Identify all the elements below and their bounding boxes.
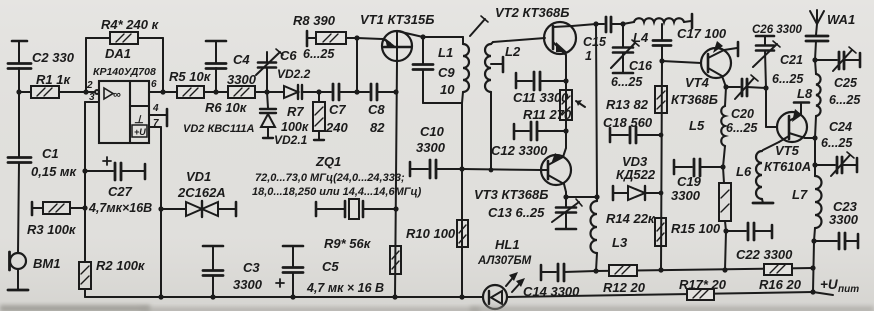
trimmer capacitor C6 [256, 47, 335, 92]
inductor L3 [591, 197, 628, 271]
node: C23 junction [811, 238, 816, 243]
node: VT5 collector [812, 135, 817, 140]
zener VD1 2С162А [158, 169, 236, 217]
transistor VT4 КТ368Б [671, 41, 738, 107]
wire: base column [357, 38, 383, 92]
inductor L8 [797, 60, 821, 138]
wire: op-amp pin3 line down [84, 102, 86, 262]
node: op-amp output [160, 89, 165, 94]
node: collector branch [593, 21, 598, 26]
svg-text:C5: C5 [322, 259, 339, 274]
svg-text:L8: L8 [797, 86, 813, 101]
svg-text:КТ368Б: КТ368Б [671, 92, 718, 107]
svg-text:VT3 КТ368Б: VT3 КТ368Б [474, 187, 548, 202]
node: rail C3 [210, 294, 215, 299]
svg-text:2С162А: 2С162А [177, 185, 226, 200]
resistor R7 [313, 92, 325, 140]
resistor R17 [679, 277, 727, 300]
node: R7 junction [316, 89, 321, 94]
svg-text:R10 100: R10 100 [406, 226, 456, 241]
svg-text:АЛ307БМ: АЛ307БМ [477, 255, 532, 267]
inductor L5 [689, 87, 726, 167]
pin 2 of DA1 [86, 80, 99, 94]
svg-text:6...25: 6...25 [829, 93, 861, 107]
pin 6 of DA1 [149, 79, 163, 92]
node: C20-C21 junction [763, 85, 768, 90]
resistor R6 [183, 86, 267, 135]
svg-text:72,0...73,0 МГц(24,0...24,333;: 72,0...73,0 МГц(24,0...24,333; [255, 172, 405, 184]
inductor L6 [736, 151, 762, 199]
node: rail VD1 line [158, 294, 163, 299]
svg-text:VT2 КТ368Б: VT2 КТ368Б [495, 5, 569, 20]
trimmer capacitor C20 [726, 75, 766, 135]
node: rail C5 [290, 294, 295, 299]
node: C16 branch [620, 21, 625, 26]
svg-text:82: 82 [370, 120, 385, 135]
wire: R11 to VT3 collector [565, 131, 567, 148]
resistor R5 [163, 69, 216, 98]
svg-text:+U: +U [134, 127, 146, 137]
capacitor C7 [319, 84, 357, 135]
transistor VT3 КТ368Б [474, 148, 571, 202]
op-amp U1 DA1 КР140УД708 [93, 46, 156, 143]
diode VD3 КД522 [613, 154, 663, 200]
transistor VT1 КТ315Б [360, 12, 434, 62]
svg-text:R8 390: R8 390 [293, 13, 336, 28]
svg-text:R9* 56к: R9* 56к [324, 236, 372, 251]
resistor R2 [79, 258, 146, 297]
svg-text:6...25: 6...25 [726, 121, 758, 135]
trimmer capacitor C13 [488, 194, 600, 229]
node: C24 junction [812, 162, 817, 167]
capacitor C27 [85, 157, 152, 215]
wire: VT3 base line [462, 169, 541, 170]
ground under L6 [753, 199, 773, 203]
svg-text:VT5: VT5 [775, 143, 800, 158]
svg-text:С19: С19 [677, 174, 702, 189]
svg-text:2: 2 [86, 80, 93, 91]
svg-text:R17* 20: R17* 20 [679, 277, 727, 292]
svg-text:L6: L6 [736, 164, 752, 179]
wire: rail A [596, 268, 813, 271]
svg-text:6...25: 6...25 [821, 136, 853, 150]
pin 4 of DA1 [149, 103, 167, 126]
node: R3 to input line [82, 205, 87, 210]
node: rail A - R15 [722, 267, 727, 272]
svg-text:6...25: 6...25 [611, 75, 643, 89]
svg-text:R13 82: R13 82 [606, 97, 649, 112]
svg-text:R5 10к: R5 10к [169, 69, 212, 84]
node: R8-base junction [354, 35, 359, 40]
svg-text:3300: 3300 [233, 277, 263, 292]
svg-text:КТ610А: КТ610А [764, 159, 811, 174]
svg-text:С22 3300: С22 3300 [736, 247, 793, 262]
svg-text:С21: С21 [780, 53, 803, 67]
node: rail A - R14 [658, 267, 663, 272]
ground under BM1 [8, 289, 28, 292]
tuning slug between L1 L2 [470, 16, 488, 36]
wire: pin7 line down to rail [160, 127, 162, 297]
capacitor C19 [671, 159, 723, 203]
resistor R3 [27, 202, 85, 237]
terminal +U supply [813, 277, 859, 295]
svg-text:пит: пит [838, 284, 859, 295]
svg-text:3300: 3300 [829, 212, 859, 227]
svg-text:VD2.1: VD2.1 [274, 133, 308, 147]
resistor R14 [606, 211, 666, 246]
svg-text:4: 4 [152, 103, 159, 114]
svg-text:С27: С27 [108, 184, 133, 199]
resistor R9 [324, 236, 401, 274]
svg-text:R12 20: R12 20 [603, 280, 646, 295]
svg-text:C1: C1 [42, 146, 59, 161]
svg-text:КД522: КД522 [616, 167, 656, 182]
capacitor C8 [357, 84, 396, 135]
svg-text:VD1: VD1 [186, 169, 211, 184]
svg-text:C16: C16 [629, 59, 653, 73]
resistor R16 [759, 264, 802, 292]
node: C7-C8 junction [354, 89, 359, 94]
svg-text:WA1: WA1 [827, 12, 855, 27]
svg-text:L5: L5 [689, 118, 705, 133]
svg-text:VD2 КВС111А: VD2 КВС111А [183, 123, 255, 135]
resistor R8 [293, 13, 357, 46]
svg-text:100к: 100к [281, 120, 309, 134]
svg-text:L1: L1 [438, 45, 453, 60]
svg-text:C7: C7 [329, 102, 346, 117]
wire: rail B right [507, 292, 813, 297]
node: rail B supply [810, 289, 815, 294]
resistor R12 [603, 265, 646, 295]
svg-text:3300: 3300 [671, 188, 701, 203]
svg-text:С15: С15 [583, 35, 607, 49]
pin 7 of DA1 [149, 118, 161, 129]
node: C19 junction [720, 164, 725, 169]
svg-text:+U: +U [820, 277, 839, 292]
svg-text:L3: L3 [612, 235, 628, 250]
svg-text:7: 7 [153, 118, 159, 129]
wire: R13 column [661, 61, 662, 270]
resistor R1 [19, 72, 86, 98]
svg-text:ВМ1: ВМ1 [33, 256, 60, 271]
pin 3 of DA1 [85, 92, 99, 103]
svg-text:1: 1 [585, 49, 592, 63]
node: varactor junction [264, 89, 269, 94]
node: emitter-crystal [393, 206, 398, 211]
svg-text:C18 560: C18 560 [603, 115, 653, 130]
svg-text:6: 6 [151, 79, 157, 90]
svg-text:С24: С24 [829, 120, 852, 134]
svg-text:∞: ∞ [113, 89, 121, 101]
svg-text:VT4: VT4 [685, 75, 710, 90]
svg-text:С25: С25 [834, 76, 858, 90]
LED HL1 АЛ307БМ [477, 237, 532, 309]
resistor R13 [606, 86, 667, 113]
svg-text:HL1: HL1 [495, 237, 520, 252]
svg-text:L7: L7 [792, 187, 808, 202]
svg-text:R3 100к: R3 100к [27, 222, 77, 237]
svg-text:R4* 240 к: R4* 240 к [101, 17, 160, 32]
inductor L7 [792, 165, 822, 241]
capacitor C9 [413, 37, 462, 103]
node: emitter-C8 [393, 89, 398, 94]
svg-text:R1 1к: R1 1к [36, 72, 71, 87]
capacitor C1 [8, 92, 78, 253]
wire: tank bottom line down [461, 103, 463, 297]
svg-text:C8: C8 [368, 102, 385, 117]
svg-text:С17 100: С17 100 [677, 26, 727, 41]
capacitor C11 [513, 72, 569, 105]
node: antenna C25 [812, 57, 817, 62]
svg-text:VT1 КТ315Б: VT1 КТ315Б [360, 12, 434, 27]
svg-text:6...25: 6...25 [772, 72, 804, 86]
svg-text:3300: 3300 [416, 140, 446, 155]
inductor L4 [623, 14, 692, 45]
svg-text:4,7мк×16В: 4,7мк×16В [88, 201, 152, 215]
resistor R4 feedback [86, 17, 163, 92]
svg-text:C4: C4 [233, 52, 250, 67]
wire: collector to tank [423, 36, 463, 38]
wire: bottom rail left [85, 296, 483, 298]
varactor VD2.2 [267, 85, 319, 99]
resistor R11 [523, 90, 585, 122]
transistor VT2 КТ368Б [495, 5, 576, 55]
svg-text:С26 3300: С26 3300 [752, 24, 802, 36]
svg-text:DA1: DA1 [105, 46, 131, 61]
svg-text:10: 10 [440, 82, 455, 97]
svg-text:C9: C9 [438, 65, 455, 80]
svg-text:4,7 мк × 16 В: 4,7 мк × 16 В [306, 281, 384, 295]
wire: VT1 emitter line down [395, 62, 397, 297]
svg-text:R14 22к: R14 22к [606, 211, 656, 226]
node: rail A - L3 [593, 268, 598, 273]
capacitor C23 [814, 199, 859, 249]
node: VT1 collector [420, 34, 425, 39]
svg-text:С6: С6 [280, 48, 297, 63]
capacitor C2 [8, 41, 75, 92]
svg-text:R16 20: R16 20 [759, 277, 802, 292]
node: C22 junction [723, 228, 728, 233]
wire: base wire VT4 [662, 61, 701, 63]
svg-text:С20: С20 [731, 107, 754, 121]
node: C4 junction [213, 89, 218, 94]
resistor R10 [406, 220, 468, 247]
node: C27 junction [82, 168, 87, 173]
resistor R15 [671, 167, 731, 236]
svg-text:С12 3300: С12 3300 [491, 143, 548, 158]
trimmer capacitor C24 [815, 120, 857, 176]
capacitor C15 [583, 17, 623, 63]
svg-text:R15 100: R15 100 [671, 221, 721, 236]
capacitor C14 [523, 264, 596, 299]
node: VT4 emitter [723, 84, 728, 89]
node: rail R9 line [392, 294, 397, 299]
capacitor C5 [276, 246, 384, 297]
trimmer capacitor C21 [753, 36, 804, 88]
svg-text:C10: C10 [420, 124, 445, 139]
svg-text:С3: С3 [243, 260, 260, 275]
inductor L2 [485, 38, 545, 172]
svg-text:18,0...18,250 или 14,4...14,6М: 18,0...18,250 или 14,4...14,6МГц) [252, 186, 422, 198]
svg-text:3300: 3300 [227, 72, 257, 87]
svg-text:C13 6..25: C13 6..25 [488, 205, 545, 220]
svg-text:L2: L2 [505, 44, 521, 59]
svg-text:3: 3 [89, 92, 95, 103]
svg-text:ZQ1: ZQ1 [315, 154, 341, 169]
wire: VT5 base [766, 88, 777, 127]
node: VT4 base [659, 58, 664, 63]
svg-text:R7: R7 [287, 104, 304, 119]
capacitor C18 [603, 115, 663, 143]
node: R1 left junction [16, 89, 21, 94]
node: rail R10 line [459, 294, 464, 299]
trimmer capacitor C16 [611, 24, 653, 89]
capacitor C4 [206, 41, 257, 92]
node: op-amp inverting input [83, 89, 88, 94]
wire: supply column [813, 241, 814, 292]
svg-text:240: 240 [325, 120, 348, 135]
svg-text:L4: L4 [633, 30, 649, 45]
svg-text:R6 10к: R6 10к [205, 100, 248, 115]
svg-text:VD2.2: VD2.2 [277, 67, 311, 81]
crystal ZQ1 [252, 154, 422, 219]
antenna WA1 [810, 10, 855, 35]
microphone BM1 [10, 252, 61, 289]
wire: L3 column [596, 24, 597, 197]
svg-text:⊥: ⊥ [134, 114, 144, 126]
wire: VT2 collector [572, 24, 596, 26]
svg-text:R2 100к: R2 100к [96, 258, 146, 273]
paper smudge bottom [0, 305, 874, 311]
capacitor C22 [726, 223, 793, 262]
node: C10 junction [459, 166, 464, 171]
trimmer capacitor C25 [815, 47, 861, 107]
wire: VT2 emitter line [565, 55, 567, 131]
capacitor C17 [653, 24, 727, 61]
svg-text:6...25: 6...25 [303, 47, 335, 61]
node: rail A supply [810, 265, 815, 270]
varactor VD2.1 [260, 92, 309, 147]
inductor L1 [438, 37, 469, 103]
capacitor C10 [410, 124, 462, 178]
svg-text:R11 270: R11 270 [523, 107, 572, 122]
capacitor C26 [752, 24, 828, 60]
svg-text:C2 330: C2 330 [32, 50, 75, 65]
wire: R15 to rail A [725, 231, 726, 270]
svg-text:КР140УД708: КР140УД708 [93, 66, 156, 78]
capacitor C3 [203, 246, 263, 297]
transistor VT5 КТ610А [763, 103, 815, 175]
svg-text:0,15 мк: 0,15 мк [31, 164, 78, 179]
capacitor C12 [491, 122, 569, 158]
